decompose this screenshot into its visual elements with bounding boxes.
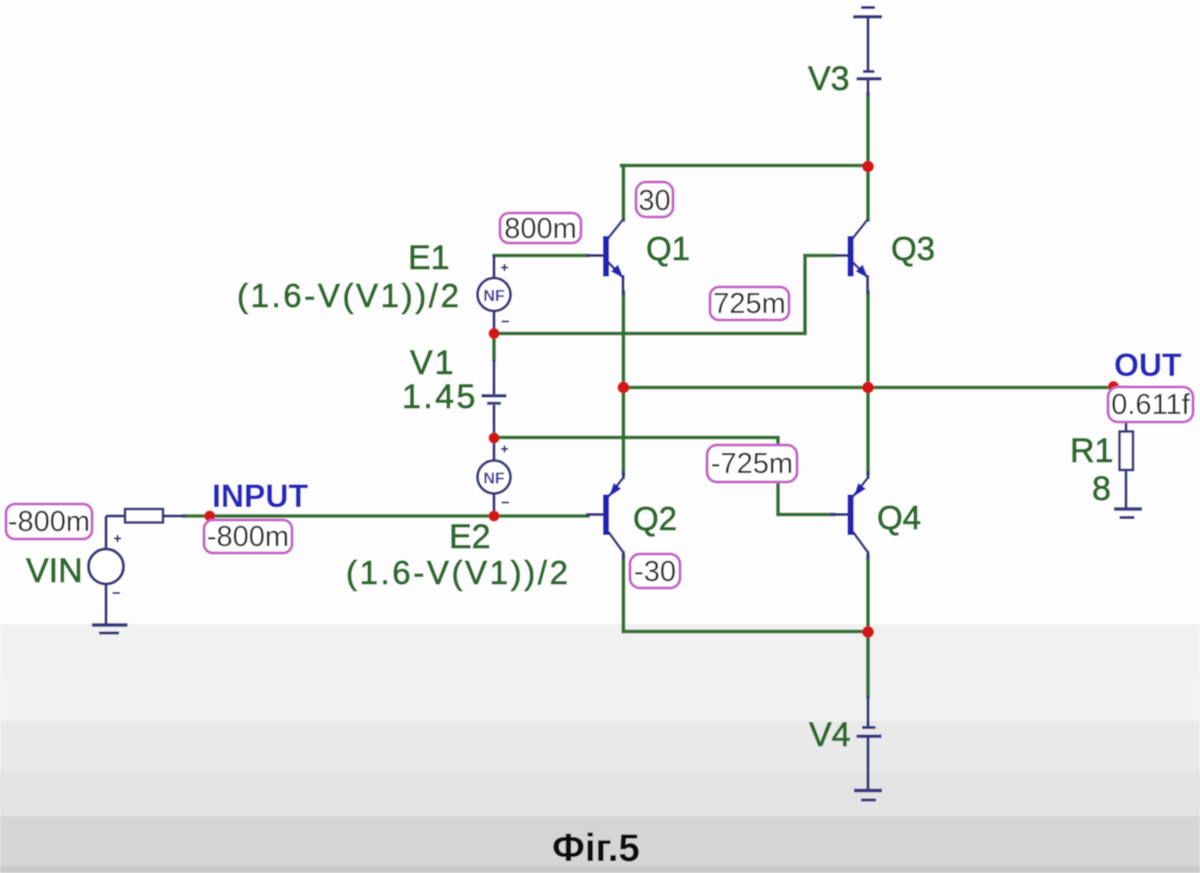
wire V3 riser — [866, 94, 870, 220]
svg-text:V3: V3 — [808, 60, 850, 98]
wire V4 drop — [866, 632, 870, 697]
svg-text:1.45: 1.45 — [402, 378, 478, 416]
junction dot INPUT — [204, 511, 215, 522]
battery V4 — [854, 696, 882, 801]
junction dot top rail — [862, 161, 874, 173]
controlled source E1 — [478, 256, 511, 335]
resistor R1 — [1120, 390, 1134, 508]
value box 0.611f (OUT) — [1108, 387, 1193, 422]
wire Q1 emitter to Q2 emitter — [622, 292, 626, 474]
wire OUT net — [623, 386, 1126, 390]
svg-text:OUT: OUT — [1114, 347, 1182, 383]
value box -725m (Q4) — [707, 445, 797, 482]
svg-text:E1: E1 — [408, 239, 450, 277]
junction dot bottom rail — [862, 626, 874, 638]
transistor Q3 (NPN) — [834, 219, 868, 295]
battery V3 — [853, 8, 882, 97]
junction dot OUT right — [862, 382, 874, 394]
ground (R1) — [1114, 509, 1142, 518]
resistor series input (VIN internal) — [125, 509, 163, 523]
svg-text:Фіг.5: Фіг.5 — [552, 827, 640, 870]
value box -800m (VIN) — [6, 504, 92, 539]
transistor Q4 (PNP) — [830, 471, 868, 559]
controlled source E2 — [478, 438, 511, 516]
svg-text:-725m: -725m — [711, 448, 793, 480]
value box 725m (Q3) — [710, 287, 789, 320]
junction dot E1 minus — [489, 328, 500, 339]
svg-text:NF: NF — [483, 471, 505, 488]
svg-text:V4: V4 — [809, 716, 851, 754]
svg-text:-800m: -800m — [8, 506, 90, 538]
svg-text:800m: 800m — [504, 213, 577, 245]
wire INPUT net — [184, 514, 588, 518]
ground (VIN) — [92, 625, 128, 633]
transistor Q1 (NPN) — [586, 219, 624, 295]
VALUE BOXES — [6, 182, 1193, 588]
junction dot E2 minus — [489, 511, 500, 522]
wire top rail V3 to collectors — [622, 164, 869, 168]
value box 800m (E1) — [500, 213, 581, 245]
value box -30 (Q2) — [630, 554, 680, 588]
svg-text:(1.6-V(V1))/2: (1.6-V(V1))/2 — [346, 554, 571, 591]
svg-text:R1: R1 — [1070, 432, 1113, 470]
wire E1 plus to Q1 base — [494, 254, 588, 258]
svg-text:Q3: Q3 — [891, 230, 935, 267]
svg-text:8: 8 — [1092, 470, 1111, 508]
wire Q3 emitter to Q4 emitter — [866, 292, 870, 474]
svg-text:30: 30 — [638, 185, 670, 217]
svg-text:-30: -30 — [634, 556, 676, 588]
junction dot V1 bottom — [489, 433, 500, 444]
wire E1 minus to Q3 base — [494, 256, 834, 334]
svg-text:Q2: Q2 — [633, 500, 677, 537]
svg-text:-800m: -800m — [207, 521, 289, 553]
svg-text:NF: NF — [483, 288, 505, 305]
svg-text:VIN: VIN — [26, 552, 83, 590]
wire Q1 collector riser — [622, 166, 626, 221]
wire E1 minus dot to V1 — [492, 334, 496, 363]
svg-text:725m: 725m — [713, 288, 786, 320]
junction dot OUT left — [618, 382, 630, 394]
svg-text:Q1: Q1 — [646, 230, 690, 267]
junction dot OUT node — [1108, 381, 1119, 392]
svg-text:V1: V1 — [410, 344, 456, 382]
voltage source VIN — [89, 516, 187, 624]
transistor Q2 (PNP) — [586, 471, 623, 559]
battery V1 — [482, 360, 507, 437]
value box 30 (Q1) — [636, 182, 673, 217]
svg-text:Q4: Q4 — [877, 499, 921, 536]
wire bottom rail to V4 — [623, 630, 868, 634]
wire Q4 collector down — [866, 556, 870, 632]
wire E2 plus to Q4 base — [494, 438, 834, 515]
svg-text:0.611f: 0.611f — [1111, 389, 1190, 421]
wire Q2 collector down — [622, 556, 626, 632]
svg-text:(1.6-V(V1))/2: (1.6-V(V1))/2 — [237, 277, 462, 314]
svg-text:E2: E2 — [449, 518, 491, 556]
svg-text:INPUT: INPUT — [212, 478, 308, 514]
value box -800m (INPUT) — [204, 520, 292, 553]
